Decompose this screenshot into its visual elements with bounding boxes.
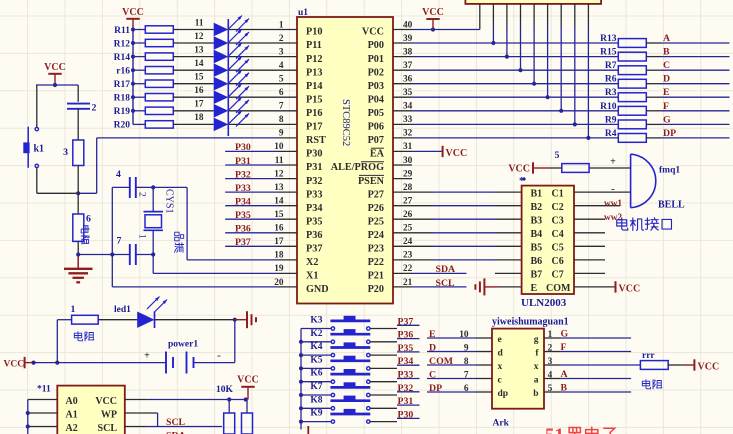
svg-text:10K: 10K	[216, 385, 234, 395]
svg-text:R13: R13	[600, 34, 617, 44]
svg-text:6: 6	[279, 88, 284, 98]
svg-text:37: 37	[403, 61, 413, 71]
svg-text:P37: P37	[398, 316, 414, 327]
svg-text:R4: R4	[605, 129, 617, 139]
svg-text:P13: P13	[306, 67, 322, 78]
svg-text:C: C	[429, 370, 436, 381]
svg-text:3: 3	[63, 147, 68, 158]
svg-text:5: 5	[279, 75, 284, 85]
svg-text:33: 33	[403, 115, 413, 125]
svg-text:36: 36	[403, 75, 413, 85]
svg-text:7: 7	[279, 102, 284, 112]
svg-text:18: 18	[274, 251, 284, 261]
svg-text:D: D	[429, 343, 436, 354]
svg-text:B4: B4	[531, 229, 543, 240]
svg-text:P06: P06	[368, 122, 384, 133]
svg-text:24: 24	[403, 237, 413, 247]
svg-text:25: 25	[403, 224, 413, 234]
svg-text:K8: K8	[310, 395, 322, 405]
svg-text:G: G	[663, 114, 671, 125]
svg-text:4: 4	[548, 371, 553, 381]
svg-text:A2: A2	[66, 423, 78, 434]
svg-text:17: 17	[274, 237, 284, 247]
svg-text:VCC: VCC	[422, 7, 444, 18]
svg-text:13: 13	[274, 183, 284, 193]
svg-text:P32: P32	[235, 169, 251, 180]
svg-text:P12: P12	[306, 54, 322, 65]
svg-text:R10: R10	[600, 102, 617, 112]
svg-text:2: 2	[279, 34, 284, 44]
svg-text:P30: P30	[398, 409, 414, 420]
svg-text:8: 8	[464, 357, 469, 367]
svg-text:R17: R17	[114, 80, 131, 90]
svg-text:A0: A0	[66, 396, 78, 407]
svg-text:R20: R20	[114, 121, 131, 131]
svg-text:R19: R19	[114, 107, 131, 117]
svg-text:2: 2	[137, 192, 147, 197]
svg-text:x: x	[498, 362, 503, 372]
svg-text:11: 11	[275, 156, 284, 166]
svg-text:P30: P30	[235, 142, 251, 153]
svg-text:C5: C5	[552, 243, 564, 254]
svg-text:R9: R9	[605, 115, 617, 125]
svg-text:R7: R7	[605, 61, 617, 71]
svg-text:F: F	[663, 101, 669, 112]
svg-text:P03: P03	[368, 81, 384, 92]
svg-text:g: g	[534, 335, 539, 345]
svg-text:P33: P33	[306, 189, 322, 200]
svg-text:R12: R12	[114, 39, 131, 49]
svg-text:RST: RST	[306, 135, 326, 146]
svg-text:P36: P36	[235, 224, 251, 235]
svg-text:P04: P04	[368, 95, 384, 106]
svg-text:VCC: VCC	[122, 7, 144, 18]
svg-text:K5: K5	[310, 355, 322, 365]
svg-text:12: 12	[274, 169, 284, 179]
svg-text:BELL: BELL	[658, 200, 685, 211]
svg-text:r16: r16	[116, 67, 130, 77]
svg-text:B7: B7	[531, 270, 543, 281]
svg-text:R14: R14	[114, 53, 131, 63]
svg-text:4: 4	[116, 169, 121, 180]
svg-text:SDA: SDA	[436, 264, 456, 275]
svg-text:*11: *11	[37, 385, 51, 395]
svg-text:K9: K9	[310, 409, 322, 419]
svg-text:e: e	[498, 335, 502, 345]
svg-text:SCL: SCL	[436, 278, 456, 289]
svg-text:26: 26	[403, 210, 413, 220]
svg-text:C3: C3	[552, 216, 564, 227]
svg-text:A1: A1	[66, 409, 78, 420]
svg-text:VCC: VCC	[237, 375, 259, 386]
svg-text:dp: dp	[498, 389, 509, 399]
svg-text:39: 39	[403, 34, 413, 44]
svg-text:ww2: ww2	[604, 213, 622, 223]
svg-text:P32: P32	[306, 176, 322, 187]
svg-text:1: 1	[548, 330, 553, 340]
svg-text:2: 2	[92, 103, 97, 114]
svg-text:SCL: SCL	[166, 417, 186, 428]
svg-text:12: 12	[194, 32, 204, 42]
svg-text:B5: B5	[531, 243, 543, 254]
svg-text:P21: P21	[368, 271, 384, 282]
svg-text:+: +	[144, 351, 150, 362]
svg-text:23: 23	[403, 251, 413, 261]
svg-text:P24: P24	[368, 230, 384, 241]
svg-text:yiweishumaguan1: yiweishumaguan1	[492, 317, 569, 328]
svg-text:29: 29	[403, 169, 413, 179]
svg-text:14: 14	[194, 59, 204, 69]
svg-text:P14: P14	[306, 81, 322, 92]
svg-text:R6: R6	[605, 75, 617, 85]
svg-text:P37: P37	[306, 244, 322, 255]
svg-text:6: 6	[464, 384, 469, 394]
svg-text:B: B	[663, 47, 670, 58]
svg-text:E: E	[429, 329, 436, 340]
svg-text:7: 7	[117, 236, 122, 247]
svg-text:B1: B1	[531, 188, 543, 199]
svg-text:P32: P32	[398, 383, 414, 394]
svg-text:5: 5	[555, 150, 560, 161]
svg-text:9: 9	[279, 129, 284, 139]
svg-text:*: *	[519, 175, 525, 187]
svg-text:C: C	[663, 60, 670, 71]
svg-text:3: 3	[548, 357, 553, 367]
svg-text:3: 3	[279, 47, 284, 57]
svg-text:4: 4	[279, 61, 284, 71]
svg-text:R15: R15	[600, 48, 617, 58]
svg-text:R18: R18	[114, 94, 131, 104]
svg-text:+: +	[610, 157, 616, 168]
svg-text:P15: P15	[306, 95, 322, 106]
svg-text:SDA: SDA	[166, 431, 186, 434]
svg-text:17: 17	[194, 100, 204, 110]
svg-text:u1: u1	[298, 8, 308, 18]
svg-text:-: -	[611, 183, 615, 195]
svg-text:P31: P31	[398, 396, 414, 407]
svg-text:VCC: VCC	[619, 284, 641, 295]
svg-text:Ark: Ark	[493, 419, 510, 429]
svg-text:COM: COM	[546, 283, 571, 294]
svg-text:1: 1	[279, 20, 284, 30]
svg-text:VCC: VCC	[698, 362, 720, 373]
svg-text:VCC: VCC	[44, 62, 66, 73]
svg-text:P37: P37	[235, 237, 251, 248]
svg-text:10: 10	[459, 330, 469, 340]
svg-text:15: 15	[274, 210, 284, 220]
svg-text:R3: R3	[605, 88, 617, 98]
svg-text:P20: P20	[368, 284, 384, 295]
svg-text:P34: P34	[306, 203, 322, 214]
svg-text:-: -	[217, 350, 221, 362]
svg-text:15: 15	[194, 73, 204, 83]
svg-text:6: 6	[86, 214, 91, 225]
svg-text:A: A	[663, 33, 670, 44]
svg-text:P26: P26	[368, 203, 384, 214]
svg-text:1: 1	[137, 234, 147, 239]
svg-text:c: c	[498, 376, 502, 386]
svg-text:11: 11	[195, 18, 204, 28]
svg-text:DP: DP	[429, 383, 442, 394]
svg-text:P30: P30	[306, 149, 322, 160]
svg-text:a: a	[534, 376, 539, 386]
svg-text:P31: P31	[306, 162, 322, 173]
svg-text:B3: B3	[531, 216, 543, 227]
svg-text:k1: k1	[34, 144, 45, 155]
svg-text:P31: P31	[235, 156, 251, 167]
svg-text:R11: R11	[114, 26, 130, 36]
svg-text:P02: P02	[368, 67, 384, 78]
svg-text:19: 19	[274, 264, 284, 274]
svg-text:VCC: VCC	[446, 148, 468, 159]
svg-text:P33: P33	[398, 370, 414, 381]
svg-text:P05: P05	[368, 108, 384, 119]
svg-text:B6: B6	[531, 256, 543, 267]
svg-text:27: 27	[403, 197, 413, 207]
svg-text:13: 13	[194, 45, 204, 55]
svg-text:40: 40	[403, 20, 413, 30]
svg-text:P36: P36	[398, 330, 414, 341]
svg-text:EA: EA	[370, 149, 385, 160]
svg-text:P22: P22	[368, 257, 384, 268]
svg-text:1: 1	[71, 304, 76, 315]
svg-text:x: x	[534, 362, 539, 372]
svg-text:P10: P10	[306, 27, 322, 38]
svg-text:SCL: SCL	[98, 423, 118, 434]
svg-text:18: 18	[194, 113, 204, 123]
svg-text:PSEN: PSEN	[358, 176, 385, 187]
svg-text:P35: P35	[398, 343, 414, 354]
svg-text:VCC: VCC	[508, 164, 530, 175]
svg-text:C6: C6	[552, 256, 564, 267]
svg-text:C4: C4	[552, 229, 564, 240]
svg-text:P27: P27	[368, 189, 384, 200]
svg-text:WP: WP	[101, 409, 117, 420]
svg-text:K7: K7	[310, 382, 322, 392]
svg-text:led1: led1	[114, 305, 131, 315]
svg-text:P23: P23	[368, 244, 384, 255]
svg-text:DP: DP	[663, 128, 676, 139]
svg-text:P07: P07	[368, 135, 384, 146]
svg-text:CYS1: CYS1	[164, 189, 175, 213]
svg-text:34: 34	[403, 102, 413, 112]
svg-text:VCC: VCC	[362, 27, 384, 38]
svg-text:P16: P16	[306, 108, 322, 119]
svg-text:D: D	[663, 74, 670, 85]
svg-text:ALE/PROG: ALE/PROG	[331, 162, 384, 173]
svg-text:E: E	[663, 87, 670, 98]
svg-text:C1: C1	[552, 188, 564, 199]
svg-text:C7: C7	[552, 270, 564, 281]
svg-text:ww1: ww1	[604, 199, 622, 209]
svg-text:b: b	[533, 389, 538, 399]
svg-text:C2: C2	[552, 202, 564, 213]
svg-text:10: 10	[274, 142, 284, 152]
svg-text:5: 5	[548, 384, 553, 394]
svg-text:K2: K2	[310, 329, 322, 339]
svg-text:d: d	[498, 349, 504, 359]
svg-text:P34: P34	[398, 356, 414, 367]
svg-text:16: 16	[274, 224, 284, 234]
svg-text:32: 32	[403, 129, 413, 139]
svg-text:16: 16	[194, 86, 204, 96]
svg-text:ULN2003: ULN2003	[521, 297, 567, 309]
svg-text:P17: P17	[306, 122, 322, 133]
svg-text:38: 38	[403, 47, 413, 57]
svg-text:K6: K6	[310, 369, 322, 379]
svg-text:7: 7	[464, 371, 469, 381]
svg-text:31: 31	[403, 142, 413, 152]
svg-text:K3: K3	[310, 316, 322, 326]
svg-text:8: 8	[279, 115, 284, 125]
svg-text:P35: P35	[235, 210, 251, 221]
svg-text:P01: P01	[368, 54, 384, 65]
svg-text:14: 14	[274, 197, 284, 207]
svg-text:K4: K4	[310, 342, 322, 352]
svg-text:P25: P25	[368, 216, 384, 227]
svg-text:2: 2	[548, 344, 553, 354]
svg-text:X2: X2	[306, 257, 318, 268]
svg-text:P35: P35	[306, 216, 322, 227]
svg-text:9: 9	[464, 344, 469, 354]
svg-text:rrr: rrr	[642, 351, 655, 361]
svg-text:28: 28	[403, 183, 413, 193]
svg-text:51: 51	[545, 425, 564, 434]
svg-text:P34: P34	[235, 197, 251, 208]
svg-text:22: 22	[403, 264, 413, 274]
svg-text:B2: B2	[531, 202, 543, 213]
svg-text:STC89C52: STC89C52	[340, 99, 351, 146]
svg-text:P33: P33	[235, 183, 251, 194]
svg-text:35: 35	[403, 88, 413, 98]
svg-text:VCC: VCC	[95, 396, 117, 407]
svg-text:X1: X1	[306, 271, 318, 282]
svg-text:P36: P36	[306, 230, 322, 241]
svg-text:30: 30	[403, 156, 413, 166]
svg-text:fmq1: fmq1	[659, 166, 680, 176]
svg-text:P00: P00	[368, 40, 384, 51]
svg-text:power1: power1	[168, 340, 198, 350]
svg-text:E: E	[531, 283, 538, 294]
svg-text:P11: P11	[306, 40, 322, 51]
svg-text:VCC: VCC	[4, 360, 25, 370]
svg-text:COM: COM	[429, 356, 453, 367]
svg-text:GND: GND	[306, 284, 329, 295]
